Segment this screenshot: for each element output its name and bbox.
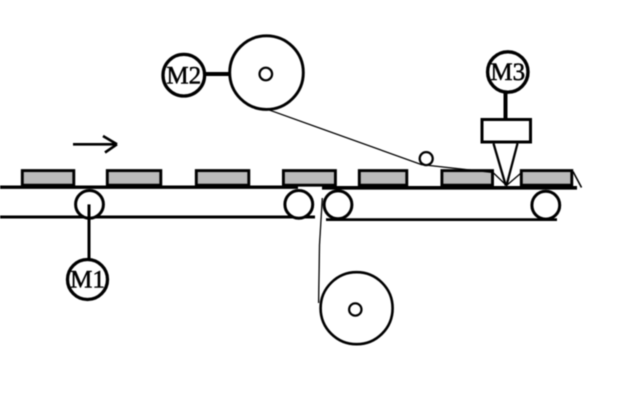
take-up reel hub xyxy=(349,303,361,315)
motor M1 circle xyxy=(68,260,108,300)
roller 3 (right conveyor start) xyxy=(324,191,352,219)
left conveyor top line xyxy=(0,185,298,188)
roller 2 (left conveyor end) xyxy=(285,191,313,219)
product box 5 xyxy=(359,171,407,186)
idler circle xyxy=(420,152,433,165)
roller 4 (right conveyor end) xyxy=(532,191,560,219)
conveyor end slant xyxy=(573,172,582,188)
product box 7 xyxy=(521,171,572,186)
product box 3 xyxy=(196,171,249,186)
M3 shaft xyxy=(504,90,508,119)
applicator V guide left xyxy=(494,144,506,186)
right conveyor bottom line xyxy=(326,218,557,221)
svg-text:M1: M1 xyxy=(70,267,105,294)
web from nip down to take-up reel xyxy=(319,198,323,303)
motor M2 circle xyxy=(163,54,205,96)
supply reel hub xyxy=(260,68,273,81)
applicator head rectangle xyxy=(482,120,531,143)
product box 1 xyxy=(22,171,74,186)
product box 2 xyxy=(107,171,161,186)
direction arrow xyxy=(73,136,117,153)
motor M3 circle xyxy=(488,52,528,92)
label web into applicator apex xyxy=(493,173,521,186)
M1 shaft xyxy=(88,204,91,261)
supply reel xyxy=(230,36,304,110)
take-up reel xyxy=(321,272,393,344)
product box 6 xyxy=(442,171,493,186)
svg-text:M3: M3 xyxy=(490,59,525,86)
svg-text:M2: M2 xyxy=(166,62,201,89)
product box 4 xyxy=(283,171,335,186)
roller 1 (left conveyor, drive) xyxy=(76,191,104,219)
M2 shaft xyxy=(204,72,232,76)
applicator V guide right xyxy=(507,144,518,186)
label web from supply reel to idler xyxy=(260,107,493,173)
left conveyor bottom line xyxy=(0,215,315,218)
right conveyor top line xyxy=(322,186,577,190)
